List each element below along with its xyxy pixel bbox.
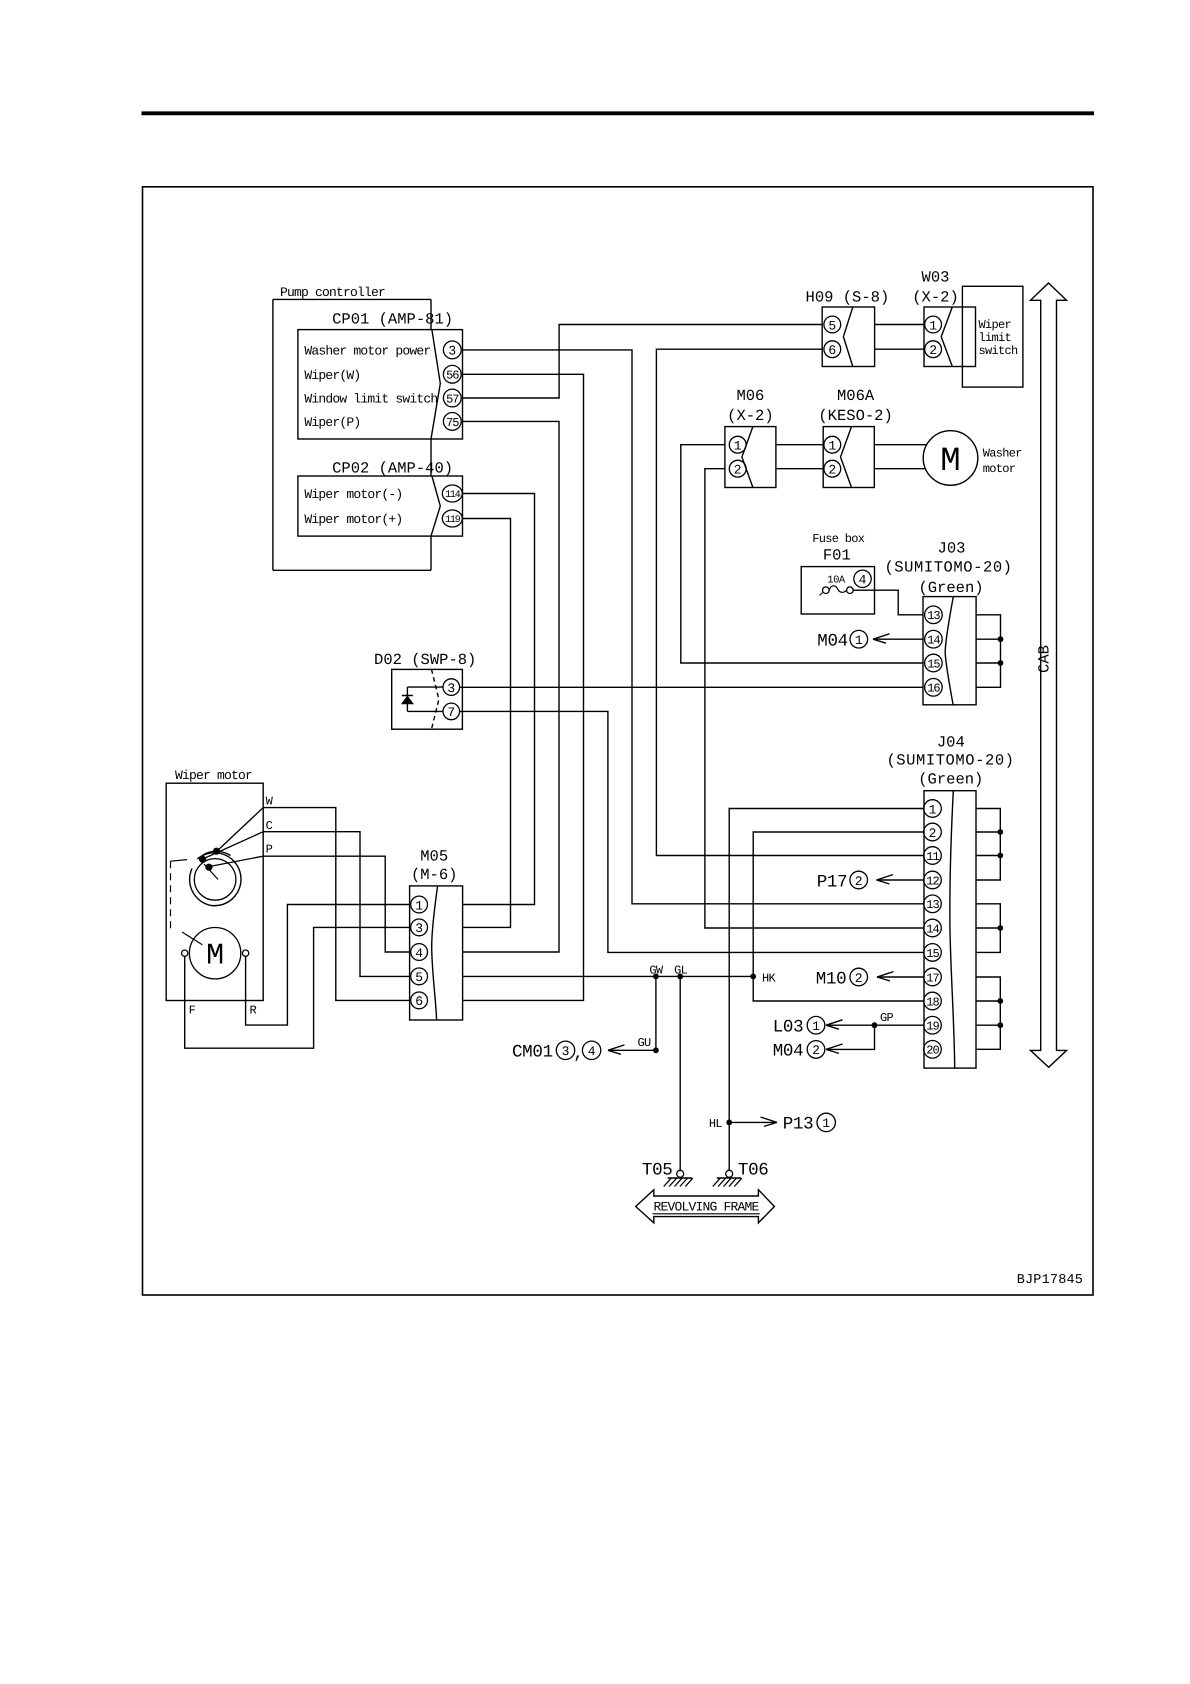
svg-text:CAB: CAB	[1036, 645, 1054, 673]
svg-text:Wiper(P): Wiper(P)	[304, 415, 360, 430]
svg-text:CP02 (AMP-40): CP02 (AMP-40)	[332, 460, 453, 478]
svg-text:15: 15	[926, 947, 939, 961]
svg-text:M04: M04	[773, 1042, 804, 1062]
svg-text:16: 16	[927, 682, 940, 696]
svg-text:M06: M06	[736, 387, 764, 405]
svg-text:(Green): (Green)	[918, 579, 983, 597]
svg-text:H09 (S-8): H09 (S-8)	[806, 288, 890, 306]
svg-text:57: 57	[446, 392, 459, 406]
svg-text:REVOLVING FRAME: REVOLVING FRAME	[653, 1199, 759, 1214]
svg-text:J04: J04	[937, 734, 965, 752]
svg-text:15: 15	[927, 657, 940, 671]
svg-text:5: 5	[415, 970, 423, 985]
svg-text:F: F	[189, 1004, 196, 1018]
svg-text:4: 4	[859, 573, 867, 588]
svg-text:C: C	[266, 819, 273, 833]
svg-text:19: 19	[926, 1020, 939, 1034]
svg-text:W03: W03	[922, 268, 950, 286]
svg-text:7: 7	[447, 705, 455, 720]
svg-text:GL: GL	[674, 963, 688, 977]
svg-text:119: 119	[445, 515, 461, 526]
svg-text:114: 114	[445, 490, 461, 501]
svg-text:T05: T05	[642, 1161, 673, 1181]
svg-text:20: 20	[926, 1044, 939, 1058]
svg-text:(Green): (Green)	[918, 770, 983, 788]
svg-text:(SUMITOMO-20): (SUMITOMO-20)	[884, 558, 1012, 576]
svg-text:Washer: Washer	[983, 447, 1023, 461]
svg-text:M: M	[940, 443, 960, 481]
svg-text:2: 2	[855, 971, 863, 986]
svg-text:2: 2	[929, 826, 937, 841]
svg-text:Wiper motor: Wiper motor	[175, 768, 252, 783]
svg-text:(X-2): (X-2)	[727, 407, 774, 425]
svg-text:3: 3	[448, 344, 456, 359]
svg-text:2: 2	[855, 874, 863, 889]
svg-text:4: 4	[415, 946, 423, 961]
svg-text:D02 (SWP-8): D02 (SWP-8)	[374, 651, 476, 669]
svg-text:Pump controller: Pump controller	[280, 285, 385, 300]
svg-text:GW: GW	[649, 963, 664, 977]
svg-text:M05: M05	[420, 848, 448, 866]
svg-text:(KESO-2): (KESO-2)	[818, 407, 892, 425]
svg-text:11: 11	[926, 850, 939, 864]
svg-text:M: M	[206, 940, 224, 974]
svg-text:56: 56	[446, 369, 459, 383]
svg-text:4: 4	[588, 1044, 596, 1059]
svg-text:Window limit switch: Window limit switch	[304, 392, 437, 407]
svg-text:2: 2	[929, 343, 937, 358]
svg-text:P17: P17	[817, 872, 848, 892]
svg-text:M06A: M06A	[837, 387, 875, 405]
svg-text:motor: motor	[983, 462, 1016, 476]
svg-text:Washer motor power: Washer motor power	[304, 344, 430, 359]
svg-text:2: 2	[734, 463, 742, 478]
svg-text:6: 6	[828, 343, 836, 358]
svg-text:1: 1	[734, 439, 742, 454]
svg-text:Wiper motor(+): Wiper motor(+)	[304, 512, 402, 527]
svg-text:6: 6	[415, 994, 423, 1009]
svg-text:17: 17	[926, 971, 939, 985]
svg-text:12: 12	[926, 874, 939, 888]
svg-text:M10: M10	[816, 969, 847, 989]
svg-text:HL: HL	[709, 1117, 723, 1131]
svg-text:J03: J03	[938, 540, 966, 558]
svg-text:14: 14	[927, 634, 940, 648]
svg-text:(X-2): (X-2)	[912, 289, 959, 307]
svg-text:Wiper(W): Wiper(W)	[304, 368, 360, 383]
svg-text:Wiper: Wiper	[979, 318, 1012, 332]
svg-text:,: ,	[573, 1044, 583, 1064]
svg-text:BJP17845: BJP17845	[1017, 1273, 1083, 1288]
svg-text:M04: M04	[817, 632, 848, 652]
svg-text:5: 5	[828, 318, 836, 333]
svg-text:1: 1	[929, 802, 937, 817]
svg-text:Fuse box: Fuse box	[812, 532, 865, 546]
svg-text:L03: L03	[773, 1018, 804, 1038]
svg-text:2: 2	[812, 1043, 820, 1058]
svg-text:3: 3	[447, 681, 455, 696]
svg-text:1: 1	[812, 1019, 820, 1034]
svg-text:1: 1	[855, 633, 863, 648]
svg-text:2: 2	[828, 463, 836, 478]
svg-text:3: 3	[415, 921, 423, 936]
svg-text:13: 13	[927, 609, 940, 623]
svg-text:14: 14	[926, 922, 939, 936]
svg-text:limit: limit	[979, 331, 1012, 345]
svg-text:GU: GU	[637, 1036, 651, 1050]
svg-text:switch: switch	[979, 344, 1019, 358]
svg-text:P13: P13	[783, 1115, 814, 1135]
svg-text:P: P	[266, 842, 273, 856]
svg-text:18: 18	[926, 995, 939, 1009]
svg-text:1: 1	[828, 439, 836, 454]
svg-text:1: 1	[822, 1116, 830, 1131]
svg-text:F01: F01	[823, 546, 851, 564]
svg-text:1: 1	[929, 318, 937, 333]
svg-text:CP01 (AMP-81): CP01 (AMP-81)	[332, 311, 453, 329]
svg-text:(SUMITOMO-20): (SUMITOMO-20)	[886, 751, 1014, 769]
svg-text:(M-6): (M-6)	[411, 866, 458, 884]
svg-text:HK: HK	[762, 971, 777, 985]
svg-text:T06: T06	[738, 1161, 769, 1181]
svg-text:Wiper motor(-): Wiper motor(-)	[304, 487, 402, 502]
svg-text:3: 3	[562, 1044, 570, 1059]
svg-text:13: 13	[926, 898, 939, 912]
svg-text:75: 75	[446, 416, 459, 430]
svg-text:1: 1	[415, 898, 423, 913]
svg-text:R: R	[250, 1004, 257, 1018]
svg-text:GP: GP	[880, 1011, 894, 1025]
svg-text:CM01: CM01	[512, 1043, 553, 1063]
svg-text:10A: 10A	[827, 575, 846, 587]
